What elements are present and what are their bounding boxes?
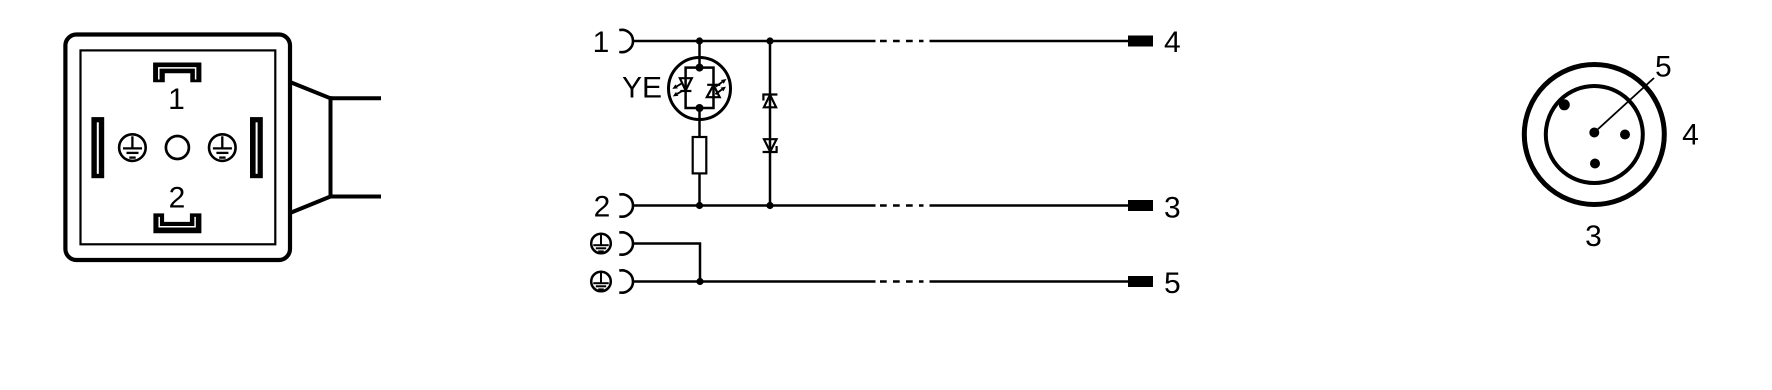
wire from node to LED loop: [698, 41, 701, 68]
wire 1 left segment: [633, 40, 876, 43]
PE contact 2 symbol: [591, 272, 611, 292]
wire 2 right segment: [930, 204, 1129, 207]
LED module circle U1: [669, 58, 731, 120]
M12 connector X2 outer circle: [1524, 65, 1664, 205]
LED loop top junction: [696, 64, 704, 72]
wire 2 left segment: [633, 204, 876, 207]
M12 pin dot bottom (pin 3): [1590, 159, 1600, 169]
PE wire 2 left segment: [633, 280, 876, 283]
right keying bar: [250, 117, 263, 178]
wire 1 dashed break: [880, 40, 924, 43]
PE contact 1 socket arc: [619, 232, 633, 254]
junction node wire1 / LED branch: [696, 37, 703, 44]
PE ground contact left (symbol): [119, 134, 146, 161]
M12 pin dot center (pin 5): [1589, 128, 1599, 138]
LED D3 (left, cathode down): [672, 78, 692, 96]
PE wire dashed break: [880, 280, 924, 283]
svg-text:3: 3: [1585, 220, 1602, 253]
pin 1 socket contact arc: [619, 30, 633, 52]
pin 1 contact slot (top bracket): [153, 63, 201, 83]
suppressor branch wire: [769, 41, 772, 206]
svg-text:3: 3: [1164, 192, 1181, 225]
resistor R1: [693, 137, 707, 173]
svg-text:2: 2: [594, 191, 611, 224]
terminal 5: [1128, 276, 1153, 287]
cable entry plug outline: [290, 82, 381, 213]
zener diode D2 (cathode down): [763, 139, 777, 152]
PE wire 1 to junction: [633, 244, 700, 282]
PE contact 2 socket arc: [619, 270, 633, 292]
LED loop frame: [686, 68, 714, 108]
LED D4 (right, cathode up): [707, 79, 727, 97]
left keying bar: [91, 117, 104, 178]
DIN valve connector X1 inner face: [81, 50, 276, 244]
DIN valve connector X1 outer body: [65, 35, 290, 261]
leader line to pin 5 label: [1594, 78, 1654, 133]
M12 pin dot right (pin 4): [1620, 130, 1630, 140]
junction node wire1 / suppressor branch: [766, 37, 773, 44]
junction node wire2 / suppressor branch: [766, 202, 773, 209]
PE contact 1 symbol: [591, 234, 611, 254]
svg-text:5: 5: [1164, 267, 1181, 300]
svg-text:2: 2: [169, 181, 186, 214]
junction node wire2 / LED branch: [696, 202, 703, 209]
pin 2 socket contact arc: [619, 194, 633, 216]
wire resistor to wire 2: [698, 173, 701, 205]
junction node PE wires: [696, 278, 703, 285]
LED loop bottom junction: [696, 104, 704, 112]
wire 1 right segment: [930, 40, 1129, 43]
svg-text:4: 4: [1682, 118, 1699, 151]
terminal 4: [1128, 36, 1153, 47]
svg-text:1: 1: [593, 26, 610, 59]
M12 connector X2 inner circle: [1546, 86, 1643, 183]
terminal 3: [1128, 200, 1153, 211]
PE wire right segment: [930, 280, 1129, 283]
PE ground contact right (symbol): [209, 134, 236, 161]
center hole: [166, 136, 189, 159]
svg-text:1: 1: [168, 83, 185, 116]
M12 pin dot top-left: [1559, 99, 1570, 110]
svg-text:4: 4: [1164, 26, 1181, 59]
svg-text:5: 5: [1655, 50, 1672, 83]
wire LED loop to resistor: [698, 108, 701, 137]
zener diode D1 (cathode up): [763, 95, 777, 108]
wire 2 dashed break: [880, 204, 924, 207]
pin 2 contact slot (bottom bracket): [153, 213, 201, 233]
svg-text:YE: YE: [622, 72, 662, 105]
